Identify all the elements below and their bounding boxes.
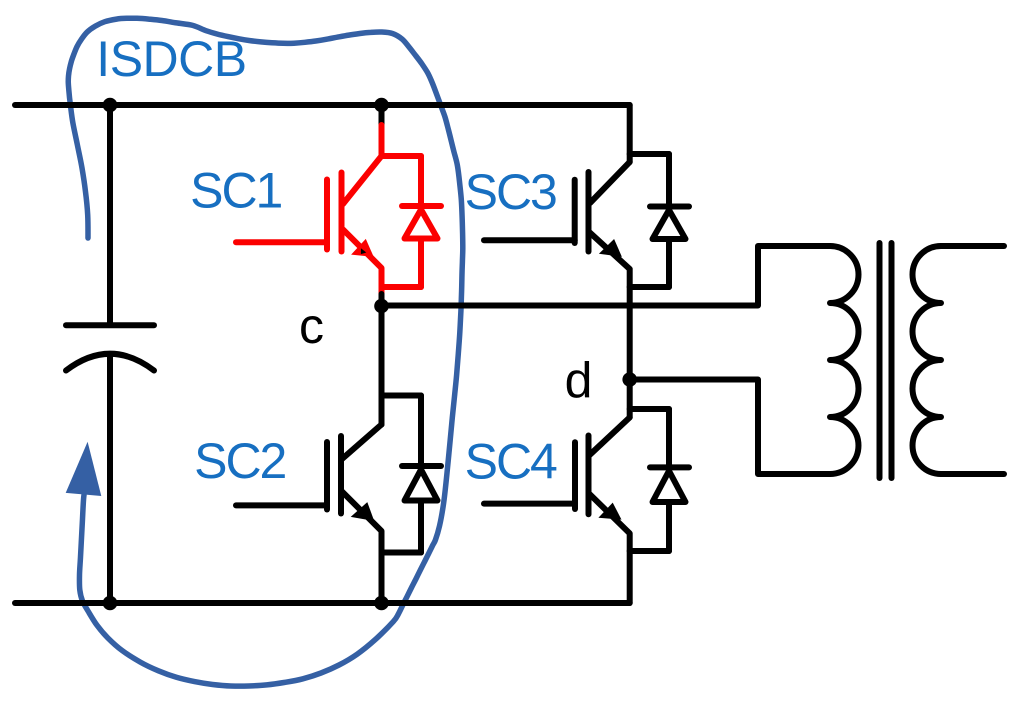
svg-text:SC1: SC1 <box>190 163 281 219</box>
svg-text:SC3: SC3 <box>465 164 556 220</box>
svg-text:SC2: SC2 <box>194 433 285 489</box>
svg-text:c: c <box>299 298 323 354</box>
svg-text:d: d <box>565 353 591 409</box>
svg-text:SC4: SC4 <box>465 434 557 490</box>
svg-text:ISDCB: ISDCB <box>96 31 246 87</box>
